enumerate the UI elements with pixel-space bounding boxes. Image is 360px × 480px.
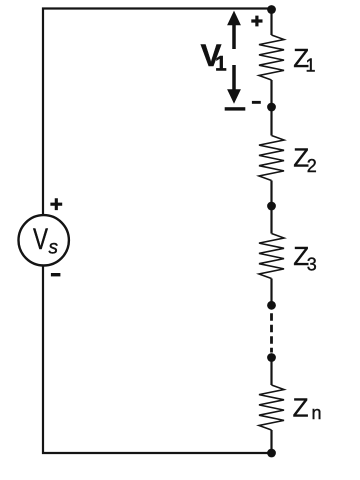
svg-text:Z: Z xyxy=(293,392,309,422)
svg-text:1: 1 xyxy=(306,56,316,76)
svg-text:2: 2 xyxy=(307,156,317,176)
svg-text:3: 3 xyxy=(307,255,317,275)
svg-text:V: V xyxy=(33,223,48,256)
svg-text:n: n xyxy=(312,403,322,423)
svg-text:s: s xyxy=(49,238,59,259)
svg-text:1: 1 xyxy=(215,52,227,75)
